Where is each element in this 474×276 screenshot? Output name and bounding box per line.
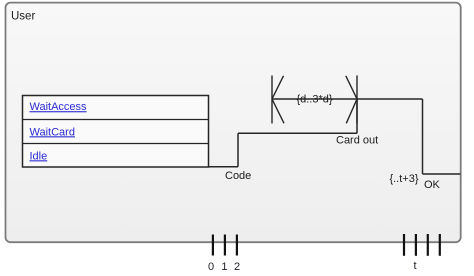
svg-text:0: 0 xyxy=(208,261,214,273)
svg-text:{d..3*d}: {d..3*d} xyxy=(296,94,332,106)
svg-text:t: t xyxy=(413,260,416,272)
tick group t xyxy=(404,234,440,256)
lifeline segment Idle level xyxy=(209,166,239,168)
svg-text:2: 2 xyxy=(234,261,240,273)
row separator WaitAccess/WaitCard xyxy=(23,119,209,121)
tick group 0 1 2 xyxy=(213,235,237,256)
duration constraint left mark xyxy=(272,76,284,124)
lifeline segment after OK xyxy=(423,173,461,175)
svg-text:WaitAccess: WaitAccess xyxy=(30,101,88,113)
lifeline segment WaitAccess level xyxy=(357,98,423,100)
lifeline step at event Code xyxy=(237,133,239,167)
duration constraint line xyxy=(272,98,357,100)
lifeline step at event OK xyxy=(422,99,424,174)
duration constraint right mark xyxy=(346,76,357,124)
svg-text:Card out: Card out xyxy=(336,135,378,147)
svg-text:{..t+3}: {..t+3} xyxy=(389,173,418,185)
svg-text:OK: OK xyxy=(424,179,441,191)
state table xyxy=(23,96,209,168)
svg-text:Code: Code xyxy=(225,170,251,182)
svg-text:1: 1 xyxy=(221,261,227,273)
row separator WaitCard/Idle xyxy=(23,143,209,145)
lifeline step at event Card out xyxy=(356,99,358,133)
svg-text:User: User xyxy=(11,11,35,23)
lifeline segment WaitCard level xyxy=(238,132,357,134)
svg-text:Idle: Idle xyxy=(30,150,48,162)
svg-text:WaitCard: WaitCard xyxy=(30,126,75,138)
